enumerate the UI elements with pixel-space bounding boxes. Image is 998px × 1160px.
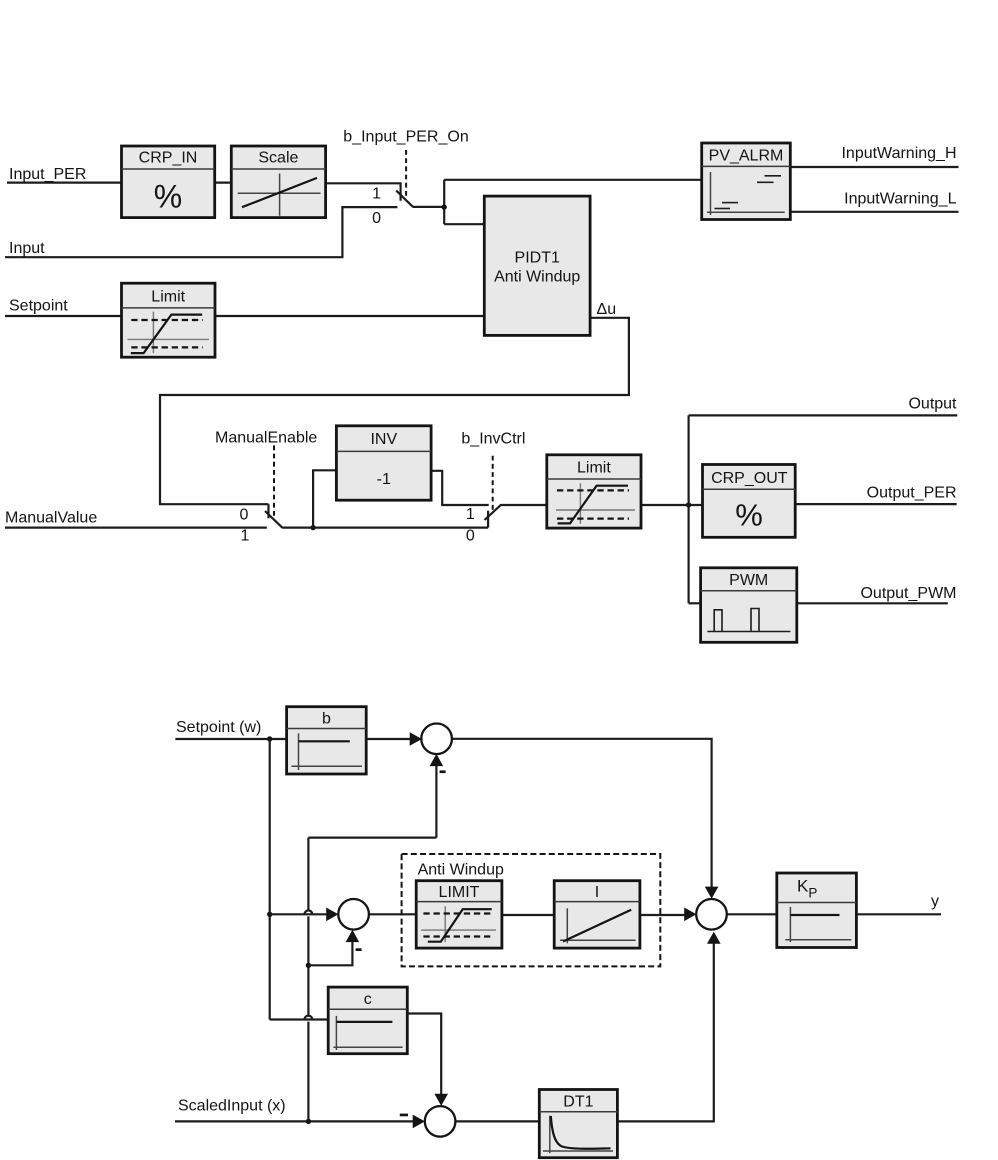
svg-text:1: 1 [466,506,475,523]
svg-text:Limit: Limit [577,460,611,477]
svg-text:0: 0 [240,507,249,524]
svg-text:-1: -1 [377,471,391,488]
svg-text:ManualEnable: ManualEnable [215,429,317,446]
svg-text:ScaledInput (x): ScaledInput (x) [178,1098,286,1115]
svg-text:Δu: Δu [597,301,617,318]
svg-text:LIMIT: LIMIT [439,884,480,901]
svg-text:Input_PER: Input_PER [9,166,86,183]
svg-text:Limit: Limit [151,288,185,305]
svg-text:0: 0 [466,528,475,545]
svg-text:Input: Input [9,240,45,257]
svg-text:%: % [735,498,763,533]
svg-text:0: 0 [372,210,381,227]
svg-text:InputWarning_L: InputWarning_L [844,190,956,207]
svg-text:Output_PWM: Output_PWM [860,585,956,602]
svg-text:1: 1 [372,186,381,203]
svg-text:Setpoint: Setpoint [9,298,68,315]
svg-text:PIDT1: PIDT1 [515,250,560,267]
svg-text:CRP_OUT: CRP_OUT [711,470,788,487]
svg-text:ManualValue: ManualValue [5,510,97,527]
svg-text:Anti Windup: Anti Windup [418,861,504,878]
svg-text:Anti Windup: Anti Windup [494,269,580,286]
svg-text:CRP_IN: CRP_IN [139,150,198,167]
svg-text:Setpoint (w): Setpoint (w) [176,719,261,736]
svg-text:b_Input_PER_On: b_Input_PER_On [343,129,468,146]
svg-text:PWM: PWM [729,572,768,589]
svg-text:1: 1 [241,527,250,544]
svg-text:I: I [595,884,599,901]
svg-text:INV: INV [370,431,397,448]
svg-text:InputWarning_H: InputWarning_H [841,145,956,162]
svg-text:Output_PER: Output_PER [867,485,957,502]
svg-text:DT1: DT1 [563,1093,593,1110]
svg-text:PV_ALRM: PV_ALRM [709,148,784,165]
svg-text:Scale: Scale [258,150,298,167]
svg-text:y: y [931,893,939,910]
svg-text:b_InvCtrl: b_InvCtrl [461,430,525,447]
svg-text:%: % [154,179,182,215]
svg-text:c: c [364,991,372,1008]
svg-text:b: b [322,710,331,727]
svg-text:Output: Output [908,396,957,413]
